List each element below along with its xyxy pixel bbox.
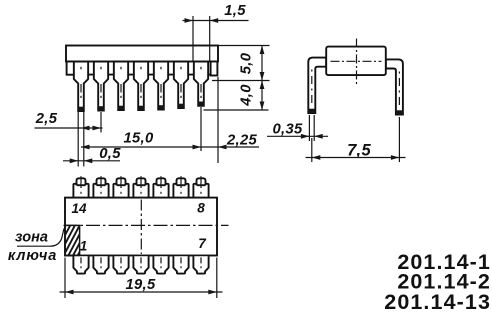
pin 3 side view (shoulder + lead) bbox=[114, 62, 128, 111]
plan view bottom pin 7 bbox=[193, 256, 208, 273]
svg-text:19,5: 19,5 bbox=[126, 277, 156, 293]
plan view bottom pin 1 bbox=[73, 256, 88, 273]
leader line to key zone bbox=[17, 229, 64, 247]
key zone hatched area bbox=[49, 225, 108, 257]
svg-text:15,0: 15,0 bbox=[124, 131, 154, 147]
left body ledge bbox=[67, 62, 74, 75]
right lead bbox=[386, 59, 403, 114]
dimension 5,0 / 4,0 vertical line bbox=[261, 46, 263, 111]
pin 7 side view (shoulder + lead) bbox=[194, 62, 208, 106]
dimension 2,5 line bbox=[35, 127, 103, 129]
dimension 1,5 extension lines bbox=[192, 16, 194, 61]
top pin 11 centerline bbox=[140, 176, 142, 194]
pin7 center extension bbox=[200, 107, 202, 151]
plan view top pin 12 bbox=[113, 184, 128, 198]
extension line body top right bbox=[219, 45, 270, 47]
svg-text:1: 1 bbox=[80, 239, 88, 254]
dimension 7,5 extension lines bbox=[311, 138, 313, 162]
top pin 10 centerline bbox=[160, 176, 162, 194]
pin 1 centerline bbox=[80, 67, 82, 98]
right body ledge bbox=[211, 62, 218, 76]
dimension 0,35 line bbox=[267, 135, 328, 137]
pin 6 side view (shoulder + lead) bbox=[174, 62, 188, 109]
plan view horizontal centerline bbox=[64, 224, 229, 226]
svg-text:ключа: ключа bbox=[8, 248, 57, 264]
bottom pin 5 centerline bbox=[160, 257, 162, 268]
pin2 center extension bbox=[100, 112, 102, 133]
svg-text:зона: зона bbox=[15, 230, 48, 246]
plan view bottom pin 2 bbox=[93, 256, 108, 273]
svg-text:8: 8 bbox=[197, 201, 205, 216]
extension line lead tips right bbox=[204, 109, 269, 111]
plan view top pin 9 bbox=[173, 184, 188, 198]
plan view top pin 11 bbox=[133, 184, 148, 198]
pin 1 side view (shoulder + lead) bbox=[74, 62, 88, 112]
svg-text:2,25: 2,25 bbox=[226, 133, 257, 149]
plan view package body bbox=[65, 198, 217, 256]
top pin 13 centerline bbox=[100, 176, 102, 194]
plan view top pin 10 bbox=[153, 184, 168, 198]
dimension 0,5 extension lines (pin1 lead edges) bbox=[77, 112, 79, 167]
dimension 15,0 / 2,25 line bbox=[81, 146, 259, 148]
svg-text:0,35: 0,35 bbox=[273, 122, 303, 138]
plan view bottom pin 3 bbox=[113, 256, 128, 273]
plan view top pin 14 bbox=[73, 184, 88, 198]
plan view top pin 8 bbox=[193, 184, 208, 198]
plan view bottom pin 5 bbox=[153, 256, 168, 273]
dimension 19,5 line bbox=[60, 291, 223, 293]
svg-text:0,5: 0,5 bbox=[99, 146, 121, 162]
bottom pin 2 centerline bbox=[100, 257, 102, 268]
pin 2 side view (shoulder + lead) bbox=[94, 62, 108, 111]
pin 4 centerline bbox=[140, 67, 142, 98]
plan view bottom pin 6 bbox=[173, 256, 188, 273]
end view horizontal centerline bbox=[331, 60, 382, 62]
left lead centerline bbox=[311, 70, 313, 104]
bottom pin 6 centerline bbox=[180, 257, 182, 268]
svg-text:14: 14 bbox=[71, 201, 87, 216]
bottom pin 1 centerline bbox=[80, 257, 82, 268]
pin 4 side view (shoulder + lead) bbox=[134, 62, 148, 111]
bottom pin 4 centerline bbox=[140, 257, 142, 268]
svg-text:5,0: 5,0 bbox=[239, 52, 255, 74]
body right edge extension bbox=[217, 77, 219, 163]
pin 5 centerline bbox=[160, 67, 162, 98]
plan view vertical centerline bbox=[140, 200, 142, 255]
pin 5 side view (shoulder + lead) bbox=[154, 62, 168, 110]
top pin 14 centerline bbox=[80, 176, 82, 194]
top pin 12 centerline bbox=[120, 176, 122, 194]
pin 6 centerline bbox=[180, 67, 182, 98]
seating rail line bbox=[67, 74, 217, 76]
pin 2 centerline bbox=[100, 67, 102, 98]
extension line shoulder bottom right bbox=[212, 80, 270, 82]
right lead centerline bbox=[398, 72, 400, 106]
key zone border bbox=[65, 225, 80, 255]
svg-text:2,5: 2,5 bbox=[35, 111, 58, 127]
dimension 1,5 line bbox=[183, 20, 249, 22]
dimension 0,35 extension lines bbox=[308, 115, 310, 141]
side view package body bbox=[66, 46, 218, 62]
pin 7 centerline bbox=[200, 67, 202, 98]
dimension 7,5 line bbox=[306, 157, 406, 159]
top pin 9 centerline bbox=[180, 176, 182, 194]
dimension 0,5 line bbox=[63, 160, 120, 162]
end view body bbox=[326, 47, 386, 76]
plan view bottom pin 4 bbox=[133, 256, 148, 273]
svg-text:201.14-13: 201.14-13 bbox=[384, 290, 491, 314]
dimension 19,5 extension lines bbox=[64, 258, 66, 299]
svg-text:1,5: 1,5 bbox=[224, 3, 246, 19]
svg-text:4,0: 4,0 bbox=[239, 84, 255, 107]
svg-text:7,5: 7,5 bbox=[347, 142, 371, 160]
end view vertical centerline bbox=[356, 39, 358, 85]
top pin 8 centerline bbox=[200, 176, 202, 194]
pin 3 centerline bbox=[120, 67, 122, 98]
bottom pin 3 centerline bbox=[120, 257, 122, 268]
left lead bbox=[308, 58, 326, 113]
bottom pin 7 centerline bbox=[200, 257, 202, 268]
plan view top pin 13 bbox=[93, 184, 108, 198]
